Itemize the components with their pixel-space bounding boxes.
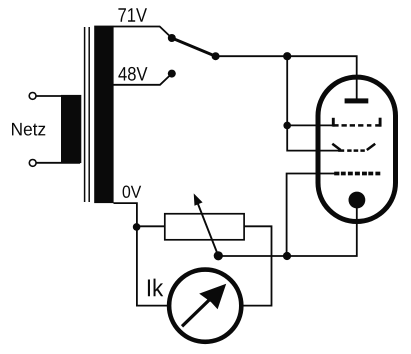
tube V1 envelope (318, 77, 396, 221)
transformer T1 primary winding (61, 95, 81, 163)
label Netz (12, 123, 45, 136)
node junction D (0V) (133, 223, 141, 231)
wire terminal-top to primary (36, 95, 80, 97)
potentiometer wiper arrow (198, 204, 219, 256)
wire D down to meter left (137, 227, 168, 306)
potentiometer R1 body (165, 214, 244, 240)
label Ik (148, 279, 163, 297)
wire D to pot left (137, 225, 165, 227)
terminal top (mains input) (29, 93, 36, 100)
wire terminal-bottom to primary (36, 162, 80, 164)
meter M1 body (169, 270, 241, 342)
terminal bottom (mains input) (29, 160, 36, 167)
grid 2 (with diagonal ends) (332, 144, 375, 151)
node junction A (bus top) (283, 52, 291, 60)
meter needle arrow (182, 300, 210, 327)
switch lever S1 (172, 38, 216, 56)
node junction C (grid3/cathode) (283, 252, 291, 260)
wire bus down from A to grid2 (287, 56, 338, 150)
grid 3 (thick dashes) (334, 172, 380, 176)
wire 48V tap (114, 74, 172, 85)
grid 1 (with end brackets) (333, 118, 381, 127)
wire pot right to meter right (243, 226, 272, 305)
transformer T1 secondary winding (94, 26, 113, 204)
wire 0V tap (114, 203, 137, 227)
label 0V (123, 186, 142, 198)
switch pole dot (212, 52, 220, 60)
anode plate bar (345, 98, 369, 103)
switch contact 48V (168, 70, 176, 78)
node junction B (grid1 tap) (283, 122, 291, 130)
label 48V (118, 67, 147, 81)
switch contact 71V (168, 34, 176, 42)
wire pole to anode corner (216, 56, 357, 98)
label 71V (118, 8, 147, 21)
transformer core line 2 (88, 27, 90, 202)
wire cathode lead down to rail (218, 200, 356, 256)
cathode dot (349, 192, 366, 209)
wire 71V tap (114, 27, 172, 39)
wiper dot (214, 251, 223, 260)
wire B to grid1 (287, 124, 332, 126)
wire grid3 to bottom junction (287, 174, 335, 257)
transformer core line 1 (84, 27, 86, 202)
